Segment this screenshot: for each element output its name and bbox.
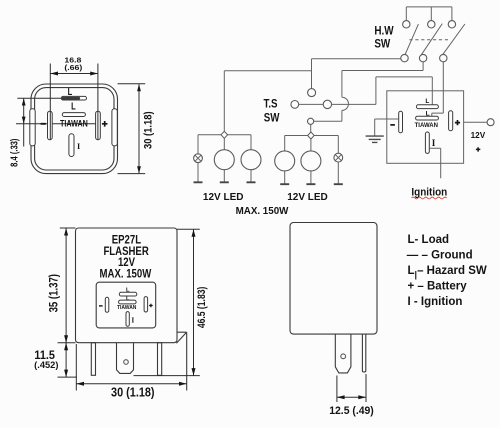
- pin label L (top): [68, 86, 73, 97]
- wire minus to ground: [375, 119, 399, 136]
- label H.W SW: [374, 25, 394, 51]
- relay pin L1 slot: [416, 116, 439, 120]
- svg-text:46.5 (1.83): 46.5 (1.83): [196, 287, 208, 328]
- wire I to ignition: [429, 148, 440, 178]
- dimension text 8.4 (.33): [8, 139, 19, 167]
- inset label L second: [126, 296, 130, 302]
- svg-text:TIAWAN: TIAWAN: [60, 119, 88, 129]
- label 12V LED left: [203, 192, 244, 203]
- inset plus slot: [144, 297, 148, 312]
- svg-text:12V: 12V: [471, 131, 486, 140]
- left terminal pin: [91, 343, 95, 376]
- H.W switch top contacts: [403, 21, 456, 28]
- svg-text:SW: SW: [374, 37, 390, 50]
- dimension 12.5 line and arrows: [337, 395, 366, 399]
- inset label L top: [126, 288, 130, 294]
- dimension 46.5 extension lines: [134, 229, 200, 375]
- dimension 11.5 extension lines: [58, 343, 78, 377]
- relay TIAWAN label: [415, 123, 438, 129]
- svg-text:L: L: [425, 98, 429, 105]
- dimension 35 extension line: [60, 227, 76, 229]
- relay minus slot: [399, 111, 403, 133]
- footprint inset box: [96, 282, 156, 328]
- svg-text:T.S: T.S: [263, 97, 277, 110]
- dimension 30 bottom line and arrows: [76, 382, 186, 386]
- right lamp 2: [301, 151, 321, 171]
- relay side-view body (bottom-left drawing): [76, 228, 178, 343]
- mounting flange bottom-right: [176, 332, 186, 390]
- H.W switch bottom contacts: [401, 54, 447, 61]
- dimension 11.5 line and arrows: [64, 343, 68, 377]
- svg-text:SW: SW: [264, 112, 280, 125]
- pin L1 second slot: [62, 113, 85, 117]
- ground symbol: [366, 136, 384, 142]
- left indicator lamp (crossed): [194, 154, 203, 163]
- relay pin L slot: [416, 105, 438, 109]
- svg-text:Ignition: Ignition: [411, 187, 447, 198]
- pin label I: [77, 142, 80, 151]
- front-view wide terminal with hole: [335, 334, 351, 373]
- svg-text:TIAWAN: TIAWAN: [415, 123, 438, 129]
- relay plus sign: [455, 120, 460, 125]
- dimension text 30 (1.18) bottom: [111, 386, 155, 400]
- right lamp bus wire: [285, 136, 339, 154]
- pin L top slot: [61, 96, 86, 100]
- pin plus slot: [96, 111, 101, 140]
- wire HW1 to T.S top contact: [312, 59, 401, 89]
- extension line through minus/plus row: [16, 123, 96, 125]
- dimension 8.4 line and arrows: [22, 98, 26, 146]
- dimension 46.5 line and arrows: [192, 229, 196, 375]
- label MAX. 150W: [236, 206, 290, 217]
- dimension 12.5 extension lines: [337, 374, 366, 402]
- pin minus slot: [48, 111, 53, 140]
- dimension 16.8 extension lines: [50, 64, 98, 141]
- front-view narrow terminal: [362, 334, 365, 372]
- svg-text:I: I: [132, 316, 135, 324]
- plus sign: [102, 121, 108, 127]
- svg-text:I: I: [432, 138, 436, 148]
- dimension text 11.5 (.452): [34, 349, 58, 369]
- relay label L second: [426, 111, 430, 118]
- label 12V LED right: [287, 192, 328, 203]
- wire branch to left lamps: [224, 71, 311, 131]
- body label FLASHER: [103, 245, 148, 258]
- wire HW3 into relay box: [432, 62, 444, 116]
- relay front-view body (bottom-center drawing): [290, 223, 377, 335]
- wire T.S bottom to HW2 with crossover hop: [314, 62, 423, 121]
- svg-text:12V LED: 12V LED: [287, 192, 328, 203]
- legend hazard switch: [408, 265, 487, 279]
- dimension 30 bottom extension line: [75, 344, 77, 391]
- right lamp ground leads: [285, 162, 339, 184]
- label T.S SW: [263, 97, 280, 125]
- relay label L top: [425, 98, 429, 105]
- svg-text:MAX. 150W: MAX. 150W: [236, 206, 290, 217]
- svg-text:TIAWAN: TIAWAN: [117, 305, 137, 311]
- inset minus sign: [99, 305, 103, 307]
- T.S switch bottom contact: [308, 118, 314, 124]
- right terminal pin: [158, 343, 162, 376]
- svg-text:L- Load: L- Load: [408, 234, 450, 246]
- left junction diamond: [221, 131, 228, 138]
- legend ignition: [408, 296, 463, 308]
- relay plus slot: [449, 111, 453, 131]
- inset TIAWAN label: [117, 305, 137, 311]
- dimension text 12.5 (.49): [329, 404, 374, 416]
- dimension 30 line and arrows: [137, 84, 141, 174]
- svg-text:MAX. 150W: MAX. 150W: [100, 268, 152, 281]
- inset plus sign: [149, 304, 153, 308]
- relay bottom-view outline (top-left drawing): [31, 84, 118, 174]
- T.S switch top contact: [308, 89, 316, 97]
- extension line through L pin (8.4 dim): [17, 97, 62, 99]
- right junction diamond: [308, 132, 315, 139]
- svg-text:(.66): (.66): [64, 64, 82, 72]
- svg-text:H.W: H.W: [374, 25, 394, 38]
- svg-text:35 (1.37): 35 (1.37): [48, 274, 61, 313]
- relay schematic box: [387, 91, 464, 164]
- right lamp 1: [275, 151, 295, 171]
- svg-text:L|– Hazard SW: L|– Hazard SW: [408, 265, 487, 279]
- label 12V: [471, 131, 486, 140]
- body label EP27L: [112, 233, 142, 246]
- right case groove slot: [112, 109, 117, 146]
- left ground bars: [194, 181, 256, 183]
- svg-text:12.5 (.49): 12.5 (.49): [329, 404, 374, 416]
- left case groove slot: [30, 109, 35, 146]
- body label MAX. 150W: [100, 268, 152, 281]
- inset pin L1 slot: [119, 300, 137, 304]
- dimension text 16.8 (.66): [64, 56, 82, 72]
- H.W switch bus wire: [406, 7, 452, 21]
- relay label I: [432, 138, 436, 148]
- svg-text:12V LED: 12V LED: [203, 192, 244, 203]
- svg-text:I: I: [77, 142, 80, 151]
- plus mark under 12V: [476, 147, 480, 151]
- right ground bars: [280, 183, 343, 185]
- left lamp ground leads: [198, 163, 251, 183]
- left lamp 1: [214, 150, 234, 170]
- H.W switch blades: [405, 24, 465, 56]
- svg-text:I - Ignition: I - Ignition: [408, 296, 463, 308]
- legend battery: [408, 281, 468, 293]
- inset pin I slot: [126, 312, 129, 327]
- dimension text 35 (1.37) rotated: [48, 274, 61, 313]
- legend ground: [407, 250, 473, 262]
- dimension 30 extension lines (right of bottom view): [118, 84, 146, 174]
- svg-text:(.452): (.452): [34, 360, 58, 370]
- legend L- Load: [408, 234, 450, 246]
- right indicator lamp (crossed): [334, 153, 343, 162]
- inset label I: [132, 316, 135, 324]
- dimension 16.8 line and arrows: [50, 72, 98, 76]
- relay pin I slot: [425, 132, 429, 153]
- inset pin L slot: [119, 292, 137, 296]
- body label 12V: [118, 256, 136, 269]
- dimension 35 line and arrows: [64, 228, 68, 343]
- svg-text:+ – Battery: + – Battery: [408, 281, 468, 293]
- wire T.S bottom to right lamps: [310, 124, 312, 132]
- H.W switch linkage (dashed): [409, 39, 449, 41]
- svg-text:8.4 (.33): 8.4 (.33): [8, 139, 19, 167]
- dimension text 46.5 (1.83) rotated: [196, 287, 208, 328]
- left lamp 2: [241, 150, 261, 170]
- svg-text:L: L: [68, 86, 73, 97]
- minus sign: [41, 123, 46, 125]
- pin I slot: [69, 134, 74, 157]
- label Ignition: [411, 187, 447, 199]
- inset minus slot: [105, 297, 109, 312]
- pin label L (second): [71, 100, 76, 111]
- svg-text:L: L: [126, 288, 130, 294]
- wire T.S row to relay pin L: [299, 77, 433, 105]
- relay minus sign: [390, 124, 395, 126]
- T.S switch row contacts: [291, 100, 332, 108]
- TIAWAN label: [60, 119, 88, 129]
- svg-text:30 (1.18): 30 (1.18): [111, 386, 155, 400]
- 12V terminal: [487, 119, 494, 126]
- wire plus to 12V terminal: [464, 121, 488, 123]
- center terminal pin with hole: [117, 343, 134, 374]
- left lamp bus wire: [198, 135, 251, 154]
- dimension text 30 (1.18) rotated: [143, 111, 155, 149]
- svg-text:— – Ground: — – Ground: [407, 250, 473, 262]
- svg-text:30 (1.18): 30 (1.18): [143, 111, 155, 149]
- svg-text:L: L: [71, 100, 76, 111]
